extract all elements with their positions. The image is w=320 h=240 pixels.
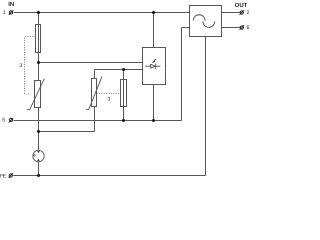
svg-text:OUT: OUT xyxy=(235,2,248,9)
svg-text:3: 3 xyxy=(19,63,22,69)
svg-text:PE: PE xyxy=(0,173,7,179)
svg-text:2: 2 xyxy=(246,10,249,16)
svg-text:IN: IN xyxy=(8,1,14,8)
svg-text:1: 1 xyxy=(3,10,6,16)
svg-text:3: 3 xyxy=(107,96,110,102)
svg-text:5: 5 xyxy=(2,118,5,124)
svg-text:6: 6 xyxy=(246,25,249,31)
